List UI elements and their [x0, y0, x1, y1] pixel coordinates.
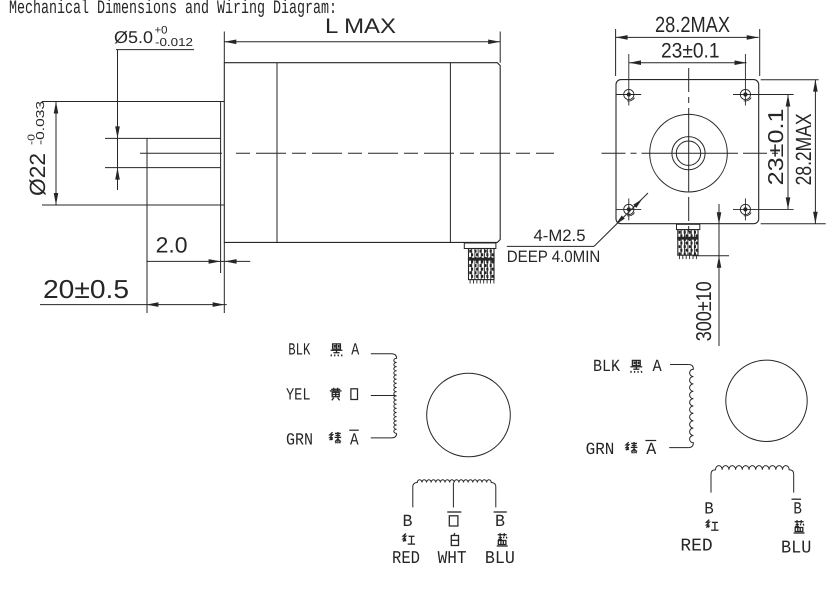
svg-text:28.2MAX: 28.2MAX	[655, 12, 730, 37]
ext lines 28.2 top	[615, 29, 617, 76]
svg-text:RED: RED	[680, 537, 712, 557]
cable braid (side view)	[469, 249, 495, 280]
phase A winding (right)	[689, 365, 694, 448]
wire A (right)	[670, 364, 689, 366]
dim shaft dia arrows	[115, 126, 120, 138]
dim 23 top arrows	[629, 60, 641, 65]
dim L MAX arrows	[224, 40, 236, 45]
dim pilot dia text	[25, 101, 50, 196]
dim L MAX line	[224, 41, 500, 43]
dim 28.2 right line	[814, 80, 816, 224]
mounting hole bottom-left	[624, 204, 634, 214]
dim 2.0 line	[146, 260, 250, 262]
dim 28.2 top line	[616, 36, 759, 38]
wire A	[371, 353, 392, 355]
svg-text:BLK: BLK	[288, 342, 311, 361]
svg-text:300±10: 300±10	[692, 281, 716, 341]
svg-text:-0.033: -0.033	[35, 101, 47, 145]
dim 28.2 right arrows	[813, 80, 818, 92]
wire A-bar	[371, 437, 392, 439]
ext line cable end	[693, 255, 730, 257]
svg-text:BLK: BLK	[593, 358, 621, 377]
dim 28.2 right text	[791, 113, 816, 185]
rotor circle (left)	[427, 373, 511, 457]
rear housing line	[449, 63, 451, 243]
front vertical center line	[688, 68, 690, 122]
svg-text:23±0.1: 23±0.1	[661, 39, 720, 62]
svg-text:DEEP 4.0MIN: DEEP 4.0MIN	[507, 248, 601, 266]
dim 23 right arrows	[786, 95, 791, 107]
pilot boss face	[220, 102, 222, 274]
mounting hole top-left	[624, 89, 634, 99]
dim 300 arrows	[717, 212, 722, 224]
svg-text:Mechanical Dimensions and Wiri: Mechanical Dimensions and Wiring Diagram…	[9, 0, 337, 19]
shaft end face	[146, 138, 148, 313]
svg-text:A: A	[350, 431, 359, 450]
flange inner line	[276, 63, 278, 243]
svg-text:A: A	[351, 342, 360, 361]
terminal O-bar	[449, 516, 458, 526]
note 4-M2.5 leader	[507, 245, 594, 247]
center tap leg (left)	[452, 483, 454, 508]
svg-text:GRN: GRN	[286, 431, 313, 450]
shaft bottom edge	[105, 167, 221, 169]
cable connector (side view)	[464, 243, 496, 249]
cable braid (front view)	[678, 230, 698, 256]
dim 20 line	[40, 304, 227, 306]
front horizontal center line	[602, 152, 645, 154]
dim 23 right line	[787, 95, 789, 210]
svg-text:23±0.1: 23±0.1	[764, 108, 788, 185]
dim 23 right text	[764, 108, 788, 185]
front face outline	[616, 80, 759, 224]
phase B winding (left)	[413, 480, 496, 508]
svg-text:BLU: BLU	[781, 538, 811, 558]
shaft circle	[676, 141, 700, 165]
body left edge extension	[223, 32, 225, 63]
dim 300 text	[692, 281, 716, 341]
svg-text:4-M2.5: 4-M2.5	[534, 227, 586, 245]
rotor circle (right)	[726, 360, 807, 441]
svg-text:L MAX: L MAX	[325, 15, 396, 38]
body right edge extension	[499, 32, 501, 63]
svg-text:+0: +0	[155, 24, 168, 36]
svg-text:GRN: GRN	[586, 441, 615, 460]
mounting hole bottom-right	[740, 204, 750, 214]
pilot boss top edge / dim extension	[42, 101, 224, 103]
phase A winding (left)	[392, 354, 397, 434]
dim 300 line	[718, 204, 720, 346]
svg-text:Ø22: Ø22	[25, 153, 50, 196]
dim 20 arrows	[146, 302, 158, 307]
shaft top edge	[105, 137, 221, 139]
mounting hole top-right	[740, 89, 750, 99]
label lan2 (blue)	[497, 533, 508, 546]
svg-text:B: B	[495, 513, 505, 532]
label hong (red)	[403, 534, 415, 545]
svg-text:B: B	[403, 513, 413, 532]
pilot boss bottom edge / dim extension	[42, 204, 224, 206]
dim 23 top line	[629, 62, 747, 64]
shaft boss circle	[672, 137, 705, 170]
svg-text:WHT: WHT	[438, 549, 467, 569]
svg-text:A: A	[646, 441, 657, 460]
dim 28.2 top arrows	[616, 35, 628, 40]
svg-text:B: B	[793, 501, 802, 520]
wire A-bar (right)	[669, 447, 689, 449]
dim pilot dia line	[55, 102, 57, 206]
svg-text:B: B	[704, 501, 714, 520]
phase B winding (right)	[711, 466, 794, 493]
ext lines 28.2 right	[761, 79, 819, 81]
svg-text:YEL: YEL	[286, 387, 311, 406]
cable connector (front view)	[677, 224, 700, 229]
label lan blue (right)	[794, 520, 805, 533]
label hong red (right)	[706, 520, 718, 531]
svg-text:A: A	[653, 358, 663, 377]
svg-text:-0.012: -0.012	[155, 37, 193, 49]
label bai (white)	[451, 533, 458, 545]
center line (side view)	[140, 152, 222, 154]
dim shaft dia leader	[116, 49, 194, 51]
svg-text:Ø5.0: Ø5.0	[114, 28, 153, 47]
dim 2.0 arrows	[209, 259, 221, 264]
pilot circle (front)	[650, 114, 728, 192]
svg-text:2.0: 2.0	[156, 233, 188, 258]
svg-text:28.2MAX: 28.2MAX	[791, 113, 816, 185]
svg-text:20±0.5: 20±0.5	[43, 274, 129, 304]
dim pilot dia arrows	[54, 102, 59, 114]
wire O (center tap)	[371, 395, 395, 397]
motor body outline (side view)	[224, 63, 500, 243]
svg-text:BLU: BLU	[485, 549, 515, 569]
svg-text:RED: RED	[392, 549, 420, 569]
